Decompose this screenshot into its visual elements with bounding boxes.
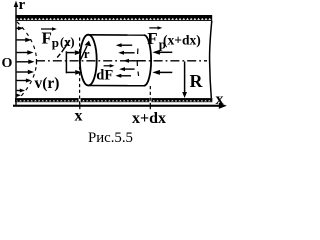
Fp(x) vector arrow over label (41, 27, 57, 30)
velocity profile arrow at y=39.9 (17, 38, 32, 43)
Fp(x+dx) force arrow lower (152, 70, 172, 75)
svg-text:F: F (147, 29, 157, 48)
velocity profile arrow at y=52.5 (17, 50, 34, 55)
velocity profile arrow at y=28.3 (17, 26, 24, 30)
svg-text:x+dx: x+dx (132, 110, 166, 127)
leader diagonal 1 (62, 40, 70, 52)
velocity profile arrow at y=72.0 (17, 70, 34, 75)
tick x (79, 103, 80, 109)
cylinder left face ellipse (80, 35, 97, 86)
svg-text:R: R (190, 71, 204, 91)
dashed section line x (79, 38, 81, 104)
velocity profile envelope (dashed parabola) (17, 22, 37, 101)
cylinder right cap hidden edge (dashed) (137, 49, 139, 55)
pressure arrow inside cylinder at y=75.8 (116, 74, 132, 78)
bottom wall (15, 98, 212, 102)
tick x+dx (150, 103, 151, 109)
left force bracket vertical (65, 51, 67, 73)
leader diagonal 2 (57, 54, 60, 58)
svg-text:(x+dx): (x+dx) (163, 32, 201, 47)
pressure arrow inside cylinder at y=69.1 (119, 67, 134, 71)
svg-text:(x): (x) (60, 35, 75, 49)
pressure arrow inside cylinder at y=52.8 (118, 51, 134, 55)
pressure arrow inside cylinder at y=45.2 (116, 43, 132, 47)
svg-text:O: O (2, 56, 13, 71)
r axis (14, 1, 19, 106)
Fp(x+dx) vector arrow over label (149, 26, 162, 29)
dashed section line x+dx lower (149, 86, 151, 104)
Fp(x) force arrow upper (66, 50, 81, 55)
pressure arrow inside cylinder at y=60.8 (123, 59, 145, 63)
cylinder right cap arc (144, 35, 151, 86)
svg-text:r: r (84, 46, 90, 61)
svg-text:x: x (75, 108, 83, 125)
radius r arrow inside ellipse (80, 41, 91, 61)
dashed section line x+dx upper (149, 35, 151, 40)
svg-text:v(r): v(r) (35, 75, 60, 92)
svg-text:F: F (42, 29, 52, 48)
cylinder top line (88, 34, 144, 36)
velocity profile arrow at y=90.5 (17, 89, 25, 93)
tick on centerline (36, 59, 37, 65)
x axis (13, 103, 227, 109)
Fp(x+dx) force arrow upper (152, 50, 172, 55)
cylinder bottom line (88, 85, 144, 87)
velocity profile arrow at y=61.8 (17, 60, 35, 65)
velocity profile arrow at y=95.3 (17, 94, 21, 97)
dF vector arrow over label (104, 64, 115, 67)
pipe end curve (210, 21, 212, 98)
centerline (dash-dot pipe axis) (36, 60, 207, 62)
Fp(x) force arrow lower (66, 70, 82, 75)
svg-text:dF: dF (96, 68, 113, 84)
top wall (15, 15, 212, 21)
svg-text:r: r (19, 0, 26, 13)
svg-text:p: p (52, 35, 59, 50)
velocity profile arrow at y=80.5 (17, 78, 32, 82)
svg-text:x: x (216, 91, 224, 108)
svg-text:Рис.5.5: Рис.5.5 (88, 130, 133, 146)
R arrow (pipe radius) (182, 62, 187, 99)
